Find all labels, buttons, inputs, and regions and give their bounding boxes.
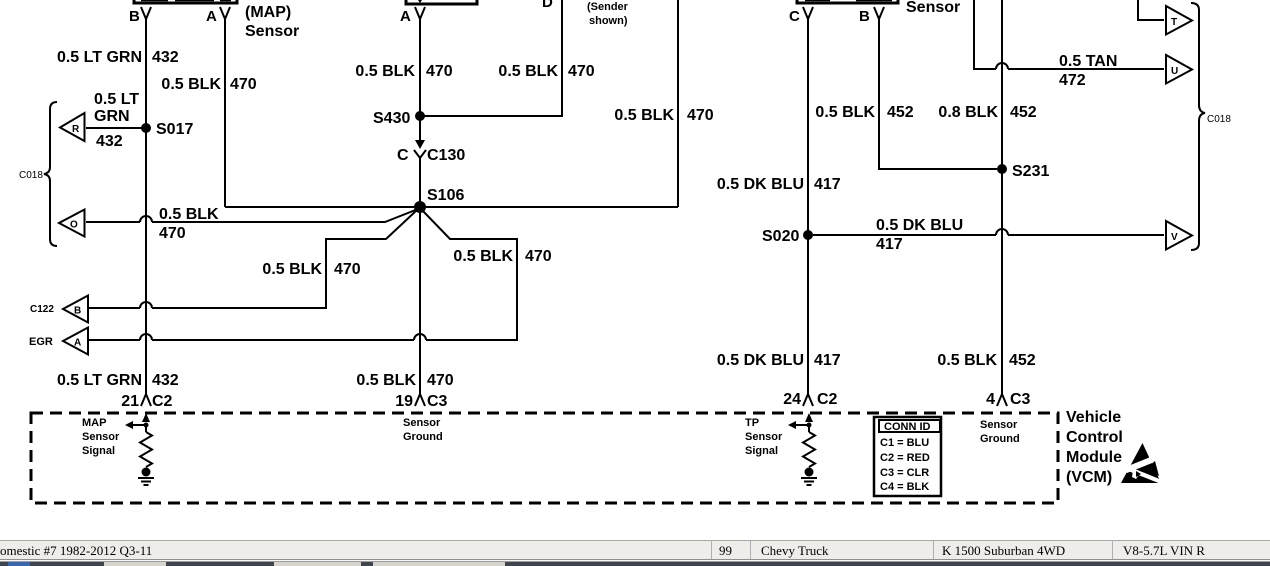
svg-text:0.5 LT GRN: 0.5 LT GRN [57,372,142,389]
pin D (sender, cut) [542,0,553,11]
svg-text:Vehicle: Vehicle [1066,409,1121,426]
splice S017 and wire to R terminal [86,121,193,138]
svg-text:0.5 DK BLU: 0.5 DK BLU [717,352,804,369]
VCM input: arrow, resistor, ground (TP signal) [788,413,817,485]
wire label 0.5 BLK 470 (EGR path) [453,248,551,265]
svg-text:V8-5.7L VIN R: V8-5.7L VIN R [1123,543,1205,558]
svg-text:CONN ID: CONN ID [884,421,931,433]
svg-text:S231: S231 [1012,163,1049,180]
TP sensor box (cut off at top) [797,0,898,3]
svg-text:24: 24 [783,391,801,408]
terminal B triangle (C122) [30,296,88,323]
svg-text:U: U [1171,66,1178,77]
wire label 0.5 BLK 470 (MAP A) [161,76,256,93]
svg-text:470: 470 [334,261,361,278]
svg-text:Sensor: Sensor [82,431,120,443]
svg-text:Sensor: Sensor [906,0,960,16]
svg-text:C130: C130 [427,147,465,164]
taskbar sliver [0,560,1270,566]
wire label 0.5 BLK 470 (C122 path) [262,261,360,278]
splice S106 [414,187,464,213]
svg-text:0.5 LT GRN: 0.5 LT GRN [57,49,142,66]
svg-text:Sensor: Sensor [403,417,441,429]
pin A (MAP) [206,7,230,25]
svg-text:472: 472 [1059,72,1086,89]
label TP Sensor Signal [745,417,783,457]
svg-text:470: 470 [159,225,186,242]
svg-text:21: 21 [121,393,139,410]
wire MAP pin B down to VCM 21 C2 (circuit 432) [141,19,151,406]
pin label 19 C3 [395,393,447,410]
svg-text:0.5 BLK: 0.5 BLK [159,206,219,223]
wire C122-B to S106 path [88,210,417,308]
svg-text:B: B [129,8,140,25]
svg-text:Ground: Ground [980,433,1020,445]
svg-text:0.8 BLK: 0.8 BLK [938,104,998,121]
wire stub to T terminal [1138,0,1164,20]
VCM input: arrow, resistor, ground (MAP signal) [125,413,154,485]
svg-text:MAP: MAP [82,417,106,429]
pin label 24 C2 [783,391,837,408]
VCM dashed box [31,413,1058,503]
svg-text:shown): shown) [589,15,628,27]
wire label 0.5 LT GRN 432 (R branch) [94,91,139,150]
CONN ID table [874,417,941,496]
svg-text:Sensor: Sensor [245,23,299,40]
svg-text:470: 470 [426,63,453,80]
svg-text:0.5 TAN: 0.5 TAN [1059,53,1117,70]
svg-text:B: B [74,306,81,317]
svg-text:470: 470 [230,76,257,93]
svg-text:Signal: Signal [82,445,115,457]
connector C130 symbol [414,140,426,158]
svg-text:EGR: EGR [29,336,53,348]
wire label 0.5 BLK 470 (O wire) [159,206,219,242]
label Vehicle Control Module (VCM) [1066,409,1123,486]
svg-text:432: 432 [96,133,123,150]
svg-text:C018: C018 [1207,114,1231,125]
svg-text:C3 = CLR: C3 = CLR [880,467,929,479]
MAP sensor box (cut off at top) [134,0,237,3]
svg-text:C4 = BLK: C4 = BLK [880,481,929,493]
svg-text:Sensor: Sensor [980,419,1018,431]
svg-text:452: 452 [887,104,914,121]
svg-text:0.5 BLK: 0.5 BLK [453,248,513,265]
svg-text:TP: TP [745,417,759,429]
svg-text:S020: S020 [762,228,799,245]
wire label 0.5 BLK 452 (bottom) [937,352,1035,369]
wire label 0.5 BLK 470 (sender D) [498,63,594,80]
svg-text:Chevy Truck: Chevy Truck [761,543,829,558]
splice S231 [997,163,1049,180]
svg-text:0.5 DK BLU: 0.5 DK BLU [717,176,804,193]
svg-text:0.5 BLK: 0.5 BLK [262,261,322,278]
wire label 0.5 LT GRN 432 (bottom) [57,372,179,389]
svg-text:0.5 LT: 0.5 LT [94,91,139,108]
wire horizontal ground bus y=207 to S106 [225,206,678,208]
pin A (box2) [400,7,425,25]
svg-text:O: O [70,220,78,231]
splice S020 and wire to V terminal with hop [762,228,1164,245]
terminal V triangle [1166,221,1192,250]
svg-text:GRN: GRN [94,108,130,125]
pin B (MAP) [129,7,151,25]
svg-text:C2 = RED: C2 = RED [880,452,930,464]
svg-text:(Sender: (Sender [587,1,629,13]
wire sender pin D down then left to S430 [421,0,562,116]
svg-text:Signal: Signal [745,445,778,457]
wire label 0.5 BLK 470 (right vertical) [614,107,713,124]
svg-text:99: 99 [719,543,732,558]
svg-text:C: C [397,147,409,164]
svg-text:V: V [1171,232,1178,243]
fuel/second sensor box (cut off at top) [406,0,477,4]
svg-text:D: D [542,0,553,11]
svg-text:S017: S017 [156,121,193,138]
svg-text:A: A [206,8,217,25]
svg-text:452: 452 [1010,104,1037,121]
svg-text:C2: C2 [152,393,173,410]
wire EGR-A to S106 path with hops [88,210,517,340]
wire label 0.5 DK BLU 417 (S020 wire) [876,217,963,253]
wire label 0.5 BLK 452 (TP B) [815,104,913,121]
wire label 0.5 LT GRN 432 (top) [57,49,179,66]
svg-text:A: A [74,338,81,349]
wire label 0.5 BLK 470 (box2 A) [355,63,452,80]
svg-text:470: 470 [525,248,552,265]
svg-text:C3: C3 [427,393,448,410]
svg-text:S106: S106 [427,187,464,204]
svg-text:432: 432 [152,49,179,66]
label Sensor (TP box) [906,0,960,16]
connector C018 brace right [1191,3,1231,250]
svg-text:Control: Control [1066,429,1123,446]
wire 452 from top through S231 to VCM 4 C3 [997,0,1007,406]
svg-text:417: 417 [876,236,903,253]
terminal U triangle [1166,55,1192,84]
svg-text:470: 470 [687,107,714,124]
wire TP pin C down through S020 to VCM 24 C2 (417) [803,19,813,406]
wire TP pin B down then right to S231 (452) [879,19,997,169]
wire label 0.8 BLK 452 [938,104,1036,121]
svg-text:B: B [859,8,870,25]
svg-text:(VCM): (VCM) [1066,469,1112,486]
svg-text:C: C [789,8,800,25]
svg-text:19: 19 [395,393,413,410]
wire right vertical from top to ground bus [677,0,679,207]
wire O-terminal to S106 (0.5 BLK 470) with hop over wire 432 [86,209,418,222]
svg-text:0.5 BLK: 0.5 BLK [498,63,558,80]
svg-text:C2: C2 [817,391,838,408]
connector C130 labels [397,147,465,164]
pin C (TP) [789,7,813,25]
wire label 0.5 TAN 472 [1059,53,1117,89]
terminal T triangle [1166,6,1192,35]
label (Sender shown) [587,1,629,27]
terminal R triangle [60,113,85,141]
svg-text:470: 470 [427,372,454,389]
svg-text:Ground: Ground [403,431,443,443]
status bar [0,540,1270,560]
svg-text:0.5 BLK: 0.5 BLK [614,107,674,124]
svg-text:0.5 BLK: 0.5 BLK [161,76,221,93]
splice S430 [373,110,425,127]
label Sensor Ground (4 C3) [980,419,1020,445]
svg-text:T: T [1171,17,1177,28]
ESD warning symbol [1121,443,1162,484]
connector C018 brace left [19,102,57,246]
pin label 21 C2 [121,393,172,410]
pin label 4 C3 [986,391,1030,408]
terminal A triangle (EGR) [29,328,88,355]
svg-text:0.5 BLK: 0.5 BLK [937,352,997,369]
label Sensor Ground (19 C3) [403,417,443,443]
wire TAN 472 from top to U terminal with hop [974,0,1164,69]
svg-text:Sensor: Sensor [745,431,783,443]
terminal O triangle [59,210,85,237]
wire label 0.5 DK BLU 417 (upper) [717,176,841,193]
svg-text:K 1500 Suburban 4WD: K 1500 Suburban 4WD [942,543,1065,558]
svg-text:C122: C122 [30,304,54,315]
svg-text:(MAP): (MAP) [245,4,291,21]
svg-text:R: R [72,124,80,135]
wire box2 pin A down through S430, C130, S106 to VCM 19 C3 [415,19,425,406]
pin B (TP) [859,7,884,25]
svg-text:417: 417 [814,176,841,193]
svg-text:S430: S430 [373,110,410,127]
svg-text:452: 452 [1009,352,1036,369]
wire label 0.5 DK BLU 417 (bottom) [717,352,841,369]
svg-text:0.5 BLK: 0.5 BLK [356,372,416,389]
svg-text:4: 4 [986,391,995,408]
svg-text:Module: Module [1066,449,1122,466]
label (MAP) Sensor [245,4,299,40]
wire label 0.5 BLK 470 (bottom center) [356,372,453,389]
svg-text:C018: C018 [19,170,43,181]
svg-text:0.5 BLK: 0.5 BLK [815,104,875,121]
svg-text:C1 = BLU: C1 = BLU [880,437,929,449]
svg-text:omestic #7 1982-2012 Q3-11: omestic #7 1982-2012 Q3-11 [0,543,152,558]
svg-text:470: 470 [568,63,595,80]
svg-text:417: 417 [814,352,841,369]
wire MAP pin A down (circuit 470) [224,19,226,207]
svg-text:0.5 BLK: 0.5 BLK [355,63,415,80]
label MAP Sensor Signal [82,417,120,457]
svg-text:0.5 DK BLU: 0.5 DK BLU [876,217,963,234]
svg-text:A: A [400,8,411,25]
svg-text:C3: C3 [1010,391,1031,408]
svg-text:432: 432 [152,372,179,389]
